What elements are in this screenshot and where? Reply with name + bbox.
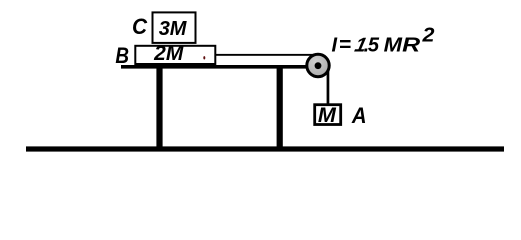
stray dot after 2M bbox=[203, 56, 205, 59]
wire: string from pulley to mass A bbox=[327, 60, 330, 105]
svg-text:B: B bbox=[115, 43, 129, 68]
svg-text:M: M bbox=[318, 102, 337, 127]
ground bbox=[26, 146, 504, 151]
svg-text:2: 2 bbox=[421, 24, 434, 46]
table left leg bbox=[156, 66, 162, 147]
tabletop bbox=[121, 65, 319, 69]
table right leg bbox=[277, 66, 283, 147]
block B (2M) bbox=[135, 46, 215, 64]
svg-text:3M: 3M bbox=[159, 18, 188, 40]
svg-text:5: 5 bbox=[368, 35, 380, 57]
mass box M (hanging mass A) bbox=[315, 105, 341, 125]
svg-text:2M: 2M bbox=[153, 42, 184, 65]
svg-text:R: R bbox=[402, 34, 420, 57]
svg-text:=: = bbox=[339, 34, 351, 57]
svg-text:A: A bbox=[351, 103, 367, 128]
wire: string from block B to pulley bbox=[214, 54, 320, 56]
svg-text:C: C bbox=[132, 15, 148, 40]
svg-text:I: I bbox=[332, 35, 338, 57]
svg-text:M: M bbox=[384, 34, 403, 57]
block C (3M) bbox=[153, 12, 196, 43]
pulley bbox=[307, 54, 329, 76]
